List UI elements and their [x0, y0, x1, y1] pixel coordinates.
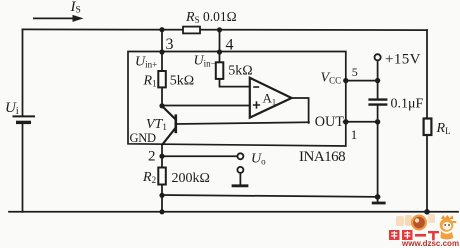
svg-text:4: 4	[226, 37, 234, 54]
terminal Uo lower	[237, 167, 243, 173]
junction R2 return node	[159, 193, 164, 198]
wire +15V drop to capacitor	[377, 60, 379, 98]
svg-text:www.dzsc.com: www.dzsc.com	[401, 239, 459, 248]
wire node4 drop through 5k to inverting input	[220, 30, 250, 87]
junction bottom bus left	[159, 209, 164, 214]
wire R2 return line	[162, 195, 378, 197]
svg-text:OUT: OUT	[315, 114, 344, 130]
wire node3 drop through R1 to node A	[161, 30, 163, 106]
junction OUT capacitor node	[375, 119, 380, 124]
svg-text:1: 1	[351, 127, 358, 142]
svg-text:+15V: +15V	[385, 52, 421, 68]
op-amp minus sign	[253, 86, 259, 88]
terminal +15V	[375, 54, 381, 60]
junction node 3 top	[159, 27, 164, 32]
wire capacitor bottom to OUT line	[377, 105, 379, 122]
wire ground stub right	[377, 197, 379, 202]
watermark text weiku yixia	[389, 230, 439, 240]
junction ground return node	[375, 194, 381, 200]
label OUT on white patch	[310, 115, 343, 129]
wire left branch lower	[22, 124, 24, 212]
wire top bus	[23, 28, 428, 31]
junction bottom bus right	[424, 209, 430, 215]
wire OUT external	[346, 121, 378, 123]
junction pin 4 on box	[217, 49, 222, 54]
transistor VT1	[162, 106, 176, 145]
svg-text:3: 3	[166, 36, 174, 53]
wire noninverting input	[162, 105, 250, 107]
junction Vcc pin	[343, 78, 348, 83]
junction node A below R1	[159, 103, 164, 108]
wire emitter chain to bottom bus	[161, 145, 163, 212]
resistor 5k inverting	[216, 62, 224, 79]
op-amp plus sign	[253, 101, 260, 108]
wire Uo lower terminal to ground	[239, 173, 241, 185]
svg-text:RS 0.01Ω: RS 0.01Ω	[185, 9, 237, 25]
junction OUT pin	[343, 119, 348, 124]
op-amp A1	[250, 78, 292, 118]
svg-text:5kΩ: 5kΩ	[170, 74, 194, 89]
svg-text:0.1μF: 0.1μF	[391, 97, 424, 112]
wire base / OUT net	[176, 122, 346, 124]
IC INA168 box	[128, 52, 346, 147]
junction +15V node	[375, 78, 380, 83]
battery Ui	[13, 116, 36, 122]
ground symbol output	[232, 184, 249, 187]
watermark mascot doodles	[396, 214, 457, 240]
capacitor C 0.1uF	[368, 100, 387, 105]
junction pin 2	[159, 154, 164, 159]
wire output terminal Uo	[162, 155, 238, 157]
resistor RL	[424, 119, 432, 136]
junction node 4 top	[217, 27, 222, 32]
junction pin 3 on box	[159, 49, 164, 54]
svg-text:200kΩ: 200kΩ	[172, 171, 210, 186]
svg-text:2: 2	[148, 149, 156, 165]
svg-text:GND: GND	[130, 131, 156, 145]
resistor R2	[158, 168, 166, 185]
resistor RS	[183, 27, 200, 34]
wire Vcc pin 5	[346, 80, 378, 82]
ground symbol right	[372, 202, 386, 205]
resistor R1	[158, 71, 166, 87]
terminal Uo upper	[237, 153, 243, 159]
wire op-amp output	[292, 98, 309, 123]
wire bottom bus	[9, 211, 458, 213]
wire decoupling down to ground node	[377, 122, 379, 197]
svg-text:INA168: INA168	[299, 149, 345, 165]
current arrow Is	[33, 15, 84, 22]
wire left branch upper	[22, 29, 24, 115]
svg-text:5: 5	[352, 65, 358, 79]
wire right branch	[426, 30, 428, 212]
